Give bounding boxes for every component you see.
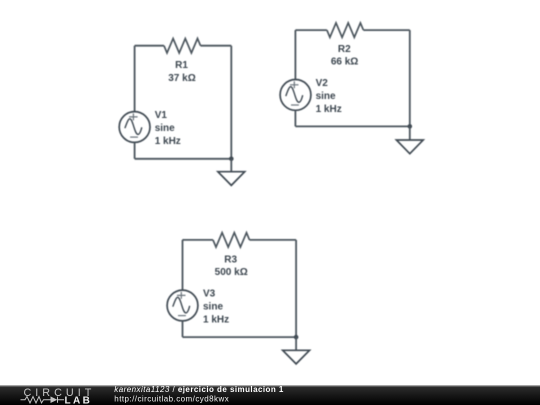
wire: C1 top-right segment (201, 45, 232, 47)
wire: C1 left vertical (134, 46, 136, 112)
svg-text:V2: V2 (316, 78, 329, 89)
svg-text:sine: sine (316, 91, 336, 102)
svg-text:V3: V3 (203, 288, 216, 299)
wire: C2 top-left segment (295, 29, 327, 31)
wire: C1 below source (134, 142, 136, 158)
resistor R1 (164, 39, 201, 53)
svg-text:1 kHz: 1 kHz (203, 314, 229, 325)
svg-text:sine: sine (203, 301, 223, 312)
wire: C2 top-right segment (363, 29, 409, 31)
svg-text:37 kΩ: 37 kΩ (168, 73, 195, 84)
resistor R3 (213, 233, 250, 247)
junction node (C1) (229, 157, 234, 162)
svg-text:LAB: LAB (65, 396, 93, 405)
voltage source V1 (119, 112, 150, 143)
svg-text:R3: R3 (224, 254, 237, 265)
wire: C3 left vertical (182, 240, 184, 290)
svg-text:66 kΩ: 66 kΩ (331, 57, 358, 68)
footer bar (0, 385, 540, 405)
svg-text:R2: R2 (338, 44, 351, 55)
wire: C3 below source (182, 321, 184, 337)
svg-text:sine: sine (155, 123, 175, 134)
wire: C2 below source (294, 110, 296, 126)
svg-text:R1: R1 (175, 60, 188, 71)
resistor R2 (327, 23, 364, 37)
wire: C1 top-left segment (135, 45, 164, 47)
wire: C3 top-left segment (182, 239, 213, 241)
svg-text:500 kΩ: 500 kΩ (215, 267, 248, 278)
voltage source V3 (167, 290, 198, 321)
wire: C2 bottom side (295, 125, 409, 127)
svg-text:1 kHz: 1 kHz (155, 136, 181, 147)
wire: C2 right vertical (409, 30, 411, 126)
wire: C3 right vertical (295, 240, 297, 337)
voltage source V2 (280, 80, 311, 111)
wire: C1 right vertical (230, 46, 232, 159)
ground (C3) (283, 337, 310, 364)
ground (C1) (218, 159, 245, 186)
svg-text:http://circuitlab.com/cyd8kwx: http://circuitlab.com/cyd8kwx (114, 395, 229, 404)
ground (C2) (396, 126, 423, 153)
svg-text:V1: V1 (155, 110, 168, 121)
wire: C3 bottom side (183, 336, 297, 338)
wire: C2 left vertical (294, 30, 296, 80)
wire: C3 top-right segment (250, 239, 297, 241)
svg-text:1 kHz: 1 kHz (316, 104, 342, 115)
wire: C1 bottom side (135, 158, 232, 160)
svg-text:karenxita1123 / ejercicio de s: karenxita1123 / ejercicio de simulacion … (114, 385, 284, 394)
junction node (C2) (408, 124, 413, 129)
CircuitLab logo: resistor-diode motif (21, 396, 65, 403)
junction node (C3) (294, 335, 299, 340)
